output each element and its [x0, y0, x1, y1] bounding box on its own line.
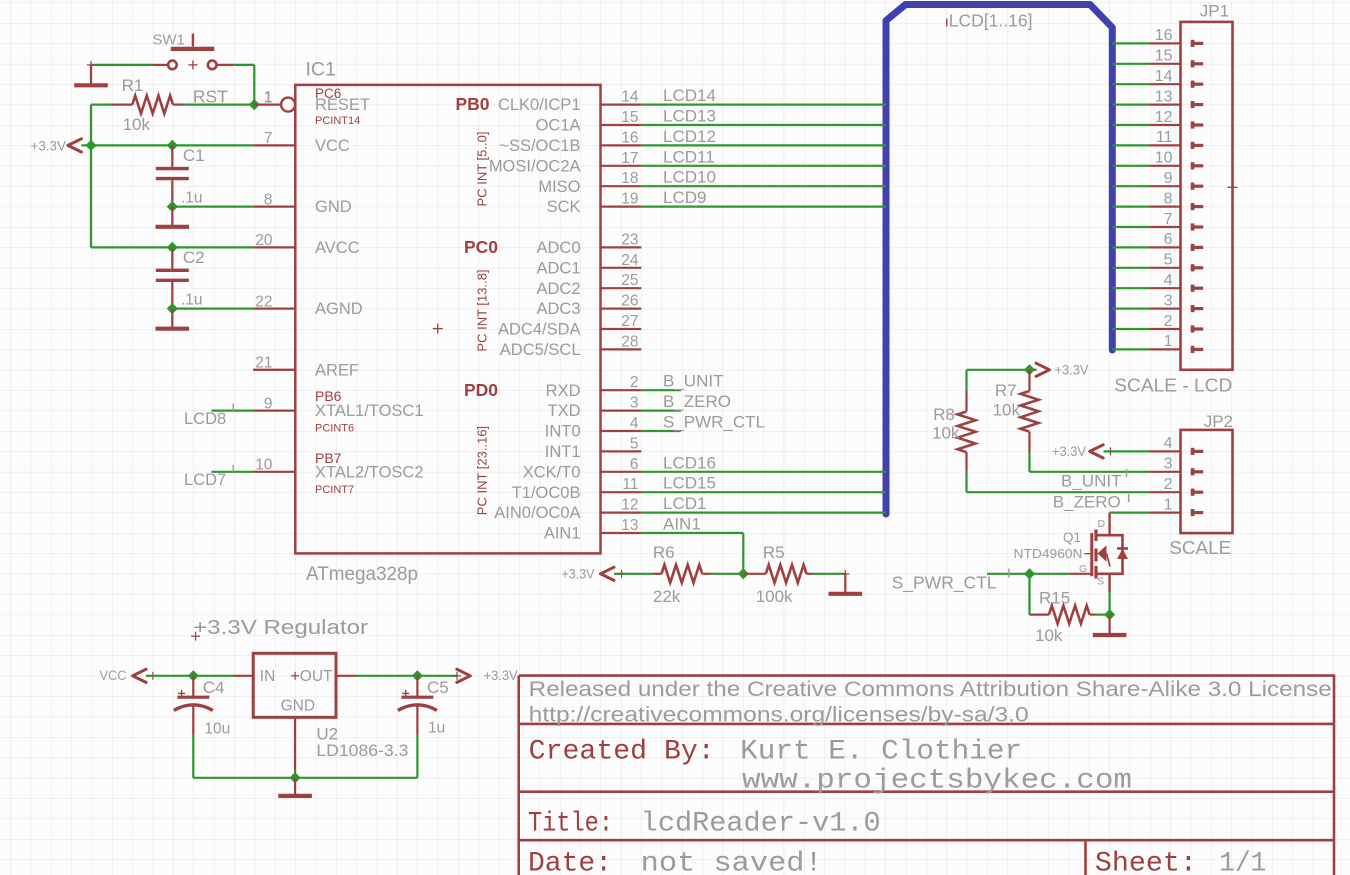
- wire R7-pin3: [1030, 452, 1151, 472]
- svg-text:R15: R15: [1039, 589, 1070, 608]
- svg-text:23: 23: [621, 231, 638, 248]
- wire C4-bottom: [192, 735, 194, 777]
- svg-text:PB7: PB7: [315, 450, 342, 466]
- wire VCC-C4: [146, 675, 233, 677]
- svg-text:NTD4960N: NTD4960N: [1014, 546, 1083, 561]
- svg-text:+3.3V Regulator: +3.3V Regulator: [193, 616, 368, 639]
- junction VCC-rail: [85, 140, 96, 151]
- wire AIN1: [641, 515, 743, 574]
- wire rail: [91, 105, 172, 248]
- svg-text:4: 4: [1164, 272, 1173, 289]
- svg-text:AVCC: AVCC: [315, 239, 360, 257]
- svg-text:S_PWR_CTL: S_PWR_CTL: [663, 413, 765, 432]
- svg-text:ADC0: ADC0: [536, 239, 580, 257]
- date sheet text: [528, 849, 1266, 875]
- svg-text:LCD13: LCD13: [663, 107, 716, 126]
- wire U2 GND lead: [294, 717, 296, 778]
- svg-text:SW1: SW1: [152, 32, 185, 49]
- pin 21 stub: [253, 369, 295, 371]
- title text: [528, 808, 881, 839]
- bus LCD[1..16]: [886, 5, 1112, 515]
- resistor R7: [993, 370, 1039, 452]
- svg-text:PC INT [13..8]: PC INT [13..8]: [475, 269, 490, 351]
- ground R5: [829, 574, 863, 594]
- svg-text:5: 5: [630, 435, 639, 452]
- svg-text:8: 8: [264, 191, 273, 208]
- svg-text:RXD: RXD: [546, 382, 581, 400]
- svg-text:ADC5/SCL: ADC5/SCL: [500, 341, 581, 359]
- svg-text:10k: 10k: [932, 424, 960, 443]
- svg-text:Created By:: Created By:: [529, 737, 715, 768]
- svg-text:B_ZERO: B_ZERO: [1053, 492, 1121, 511]
- svg-text:LCD11: LCD11: [663, 147, 715, 166]
- svg-text:6: 6: [1164, 231, 1173, 248]
- wire LCD10: [641, 168, 886, 187]
- svg-text:PCINT14: PCINT14: [315, 115, 360, 127]
- wire LCD8: [184, 404, 255, 429]
- supply +3.3V R6: [562, 566, 615, 581]
- title block frame: [519, 676, 1334, 875]
- wire S_PWR_CTL stub: [641, 413, 765, 432]
- svg-text:~SS/OC1B: ~SS/OC1B: [499, 137, 580, 155]
- wire LCD13: [641, 107, 886, 126]
- junction C1-top: [167, 140, 178, 151]
- svg-text:PCINT7: PCINT7: [315, 484, 354, 496]
- svg-text:100k: 100k: [756, 587, 793, 606]
- svg-text:3: 3: [1164, 292, 1173, 309]
- svg-text:ADC2: ADC2: [536, 280, 580, 298]
- svg-text:PC6: PC6: [315, 86, 341, 101]
- wire LCD12: [641, 127, 886, 146]
- created by text: [529, 737, 1132, 797]
- capacitor C5: [398, 676, 449, 737]
- svg-text:B_ZERO: B_ZERO: [663, 392, 731, 411]
- svg-text:24: 24: [621, 252, 639, 269]
- svg-text:10: 10: [255, 457, 273, 474]
- wire LCD16: [641, 453, 886, 472]
- wire LCD1: [641, 494, 886, 513]
- svg-text:OUT: OUT: [300, 668, 333, 685]
- svg-text:JP2: JP2: [1204, 412, 1233, 431]
- svg-text:15: 15: [621, 109, 638, 126]
- junction U2 gnd: [290, 772, 301, 783]
- svg-text:1: 1: [1164, 333, 1173, 350]
- supply VCC: [100, 668, 157, 683]
- svg-text:15: 15: [1155, 48, 1173, 65]
- svg-text:R5: R5: [763, 543, 785, 562]
- ground C1: [156, 207, 190, 227]
- resistor R6: [653, 543, 711, 606]
- IC1 port interrupt labels: [475, 132, 490, 516]
- ground SW1: [74, 65, 108, 85]
- svg-text:AIN1: AIN1: [663, 515, 701, 534]
- svg-text:28: 28: [621, 333, 638, 350]
- wire LCD11: [641, 147, 886, 166]
- svg-text:PC INT [5..0]: PC INT [5..0]: [475, 132, 490, 207]
- svg-text:+3.3V: +3.3V: [1052, 444, 1086, 459]
- wire R8-pin2 B_UNIT: [967, 469, 1151, 492]
- svg-text:XCK/T0: XCK/T0: [523, 463, 581, 481]
- svg-text:PC0: PC0: [464, 237, 498, 257]
- svg-text:MOSI/OC2A: MOSI/OC2A: [489, 157, 581, 175]
- wire OUT lead: [336, 675, 356, 677]
- svg-text:LCD1: LCD1: [663, 494, 706, 513]
- svg-text:INT0: INT0: [545, 423, 581, 441]
- svg-text:14: 14: [1155, 68, 1173, 85]
- svg-text:LCD10: LCD10: [663, 168, 716, 187]
- svg-text:PD0: PD0: [464, 380, 498, 400]
- svg-text:22: 22: [255, 293, 272, 310]
- wire RST: [91, 86, 254, 106]
- svg-text:+3.3V: +3.3V: [31, 139, 67, 154]
- svg-text:VCC: VCC: [100, 668, 127, 683]
- svg-text:LCD8: LCD8: [184, 410, 226, 428]
- svg-text:LCD12: LCD12: [663, 127, 716, 146]
- svg-text:IN: IN: [260, 668, 276, 685]
- svg-text:RST: RST: [193, 86, 228, 106]
- junction gate: [1024, 568, 1035, 579]
- svg-text:CLK0/ICP1: CLK0/ICP1: [498, 96, 581, 114]
- svg-text:LCD16: LCD16: [663, 453, 716, 472]
- svg-text:PCINT6: PCINT6: [315, 423, 354, 435]
- wires bus to JP1: [1112, 43, 1150, 349]
- svg-text:MISO: MISO: [538, 178, 580, 196]
- resistor R1: [112, 76, 184, 134]
- capacitor C1: [156, 145, 205, 206]
- wire regulator ground: [193, 777, 417, 779]
- svg-text:14: 14: [621, 89, 639, 106]
- svg-text:Kurt E. Clothier: Kurt E. Clothier: [740, 737, 1022, 768]
- connector JP2: [1150, 412, 1233, 533]
- svg-text:26: 26: [621, 293, 638, 310]
- svg-text:SCALE - LCD: SCALE - LCD: [1114, 375, 1232, 396]
- svg-text:4: 4: [630, 415, 639, 432]
- svg-text:D: D: [1098, 518, 1106, 530]
- svg-text:Q1: Q1: [1063, 530, 1081, 545]
- svg-text:1/1: 1/1: [1219, 849, 1266, 875]
- svg-text:1: 1: [1164, 496, 1173, 513]
- svg-text:.1u: .1u: [181, 292, 203, 309]
- wire R6-AIN1: [711, 573, 744, 575]
- svg-text:27: 27: [621, 313, 638, 330]
- svg-text:http://creativecommons.org/lic: http://creativecommons.org/licenses/by-s…: [529, 703, 1029, 727]
- resistor R5: [743, 543, 812, 606]
- svg-text:12: 12: [621, 497, 638, 514]
- svg-text:9: 9: [1164, 170, 1173, 187]
- svg-text:SCK: SCK: [547, 198, 581, 216]
- wire R7R8-top: [967, 369, 1030, 371]
- wire S_PWR_CTL gate: [892, 569, 1092, 594]
- wire pin4 +3.3V: [1104, 450, 1151, 452]
- svg-text:10k: 10k: [993, 401, 1021, 420]
- svg-text:16: 16: [621, 129, 638, 146]
- IC1 left pin leads: [253, 105, 295, 472]
- junction C4: [188, 670, 199, 681]
- svg-text:8: 8: [1164, 190, 1173, 207]
- svg-text:9: 9: [264, 395, 273, 412]
- svg-text:5: 5: [1164, 252, 1173, 269]
- svg-text:19: 19: [621, 191, 638, 208]
- svg-text:C2: C2: [183, 248, 205, 267]
- svg-text:Released under the Creative Co: Released under the Creative Commons Attr…: [529, 677, 1332, 701]
- junction C1-bot: [167, 201, 178, 212]
- wire LCD9: [641, 188, 886, 207]
- IC1 right pin numbers: [621, 89, 639, 534]
- supply +3.3V left: [31, 139, 82, 154]
- ground U2: [278, 778, 312, 796]
- svg-text:1u: 1u: [428, 720, 445, 737]
- svg-text:Title:: Title:: [528, 808, 613, 839]
- svg-text:AIN0/OC0A: AIN0/OC0A: [494, 504, 580, 522]
- svg-text:S_PWR_CTL: S_PWR_CTL: [892, 573, 997, 594]
- wire pin22: [172, 308, 254, 310]
- wire pin8: [172, 206, 254, 208]
- wire IN lead: [233, 675, 253, 677]
- svg-text:S: S: [1097, 576, 1104, 588]
- svg-text:2: 2: [630, 374, 639, 391]
- svg-text:GND: GND: [315, 198, 352, 216]
- svg-text:10u: 10u: [204, 721, 230, 738]
- svg-text:7: 7: [1164, 211, 1173, 228]
- svg-text:.1u: .1u: [181, 190, 203, 207]
- svg-text:www.projectsbykec.com: www.projectsbykec.com: [742, 766, 1132, 797]
- svg-text:TXD: TXD: [548, 402, 581, 420]
- svg-text:XTAL1/TOSC1: XTAL1/TOSC1: [315, 402, 424, 420]
- label +3.3V Regulator: [191, 616, 368, 641]
- IC1 left pin numbers: [255, 89, 273, 473]
- ground Q1: [1093, 615, 1127, 635]
- svg-text:ADC4/SDA: ADC4/SDA: [498, 321, 581, 339]
- wire B_UNIT stub: [641, 372, 723, 391]
- svg-text:20: 20: [255, 232, 273, 249]
- op-amp IC1 ATmega328p box: [295, 59, 600, 586]
- pin 1 RESET lead: [254, 89, 295, 112]
- svg-text:GND: GND: [281, 698, 315, 715]
- IC1 port labels: [456, 94, 499, 400]
- capacitor C4: [174, 676, 230, 738]
- svg-text:4: 4: [1164, 435, 1173, 452]
- svg-text:PC INT [23..16]: PC INT [23..16]: [475, 426, 490, 515]
- svg-text:OC1A: OC1A: [536, 117, 581, 135]
- svg-text:AGND: AGND: [315, 300, 363, 318]
- svg-text:11: 11: [622, 476, 638, 493]
- junction C5: [412, 670, 423, 681]
- regulator U2 LD1086-3.3: [253, 653, 408, 760]
- junction source: [1104, 609, 1115, 620]
- svg-text:7: 7: [264, 130, 273, 147]
- wire OUT-C5: [356, 675, 457, 677]
- svg-text:3: 3: [630, 395, 639, 412]
- wire R8-top: [965, 370, 967, 391]
- svg-text:XTAL2/TOSC2: XTAL2/TOSC2: [315, 463, 424, 481]
- wire R5-gnd: [813, 570, 850, 578]
- license text: [529, 677, 1332, 727]
- svg-text:+3.3V: +3.3V: [1055, 362, 1089, 377]
- svg-text:LCD15: LCD15: [663, 474, 716, 493]
- svg-text:1: 1: [264, 89, 273, 106]
- wire VCC: [81, 144, 254, 146]
- svg-text:B_UNIT: B_UNIT: [1061, 472, 1121, 491]
- svg-text:SCALE: SCALE: [1169, 537, 1231, 558]
- IC1 left pin names: [315, 86, 424, 496]
- wire R15-junction: [1095, 613, 1110, 615]
- svg-text:+3.3V: +3.3V: [484, 668, 518, 683]
- IC1 right pin leads: [601, 105, 642, 533]
- svg-text:Sheet:: Sheet:: [1095, 849, 1197, 875]
- wire SW1-right: [233, 65, 254, 105]
- resistor R8: [932, 391, 976, 471]
- svg-text:25: 25: [621, 272, 638, 289]
- svg-text:10k: 10k: [1035, 626, 1063, 645]
- svg-text:C1: C1: [183, 146, 205, 165]
- connector JP1: [1150, 2, 1238, 370]
- svg-text:ADC1: ADC1: [536, 259, 580, 277]
- wire C5-bottom: [416, 735, 418, 777]
- svg-text:ADC3: ADC3: [536, 300, 580, 318]
- wire +3.3V-R6: [614, 570, 653, 578]
- wire B_ZERO stub: [641, 392, 731, 411]
- svg-text:6: 6: [630, 456, 639, 473]
- wire SW1-left: [87, 61, 153, 69]
- svg-text:Date:: Date:: [528, 849, 612, 875]
- switch SW1: [152, 32, 233, 70]
- label SCALE: [1169, 537, 1231, 558]
- wire gate-R15: [1030, 574, 1049, 615]
- svg-text:LCD[1..16]: LCD[1..16]: [949, 11, 1033, 31]
- wire Q1 source: [1108, 592, 1110, 615]
- transistor Q1 NTD4960N: [1014, 513, 1129, 592]
- svg-text:AREF: AREF: [315, 361, 359, 379]
- svg-text:R1: R1: [122, 76, 144, 95]
- junction R7-top: [1024, 364, 1035, 375]
- svg-text:11: 11: [1156, 129, 1173, 146]
- svg-text:LCD7: LCD7: [184, 471, 226, 489]
- IC1 right pin names: [489, 96, 581, 542]
- svg-text:+3.3V: +3.3V: [562, 566, 595, 581]
- svg-text:12: 12: [1155, 109, 1173, 126]
- svg-text:C5: C5: [427, 678, 449, 697]
- svg-text:T1/OC0B: T1/OC0B: [512, 484, 581, 502]
- svg-text:AIN1: AIN1: [544, 525, 581, 543]
- wire LCD14: [641, 86, 886, 105]
- supply +3.3V R7: [1030, 362, 1089, 377]
- svg-text:2: 2: [1164, 476, 1173, 493]
- svg-text:16: 16: [1155, 27, 1173, 44]
- svg-text:10k: 10k: [123, 115, 151, 134]
- supply +3.3V JP2: [1052, 444, 1115, 459]
- svg-text:R8: R8: [933, 405, 955, 424]
- capacitor C2: [156, 247, 205, 308]
- svg-text:lcdReader-v1.0: lcdReader-v1.0: [641, 808, 881, 839]
- wire LCD7: [184, 465, 255, 490]
- svg-text:LCD9: LCD9: [663, 188, 706, 207]
- svg-text:LCD14: LCD14: [663, 86, 716, 105]
- svg-text:13: 13: [621, 517, 638, 534]
- wire B_ZERO Q1: [1053, 492, 1150, 512]
- svg-text:18: 18: [621, 170, 638, 187]
- svg-text:3: 3: [1164, 456, 1173, 473]
- svg-text:2: 2: [1164, 313, 1173, 330]
- supply +3.3V out: [453, 668, 518, 683]
- svg-text:10: 10: [1155, 150, 1173, 167]
- svg-text:VCC: VCC: [315, 137, 350, 155]
- resistor R15: [1035, 589, 1095, 645]
- junction C2-bot: [167, 303, 178, 314]
- svg-text:13: 13: [1155, 88, 1173, 105]
- svg-text:22k: 22k: [653, 587, 681, 606]
- junction RST: [249, 99, 260, 110]
- svg-text:JP1: JP1: [1200, 2, 1229, 21]
- svg-text:IC1: IC1: [306, 59, 336, 81]
- svg-text:not saved!: not saved!: [641, 849, 823, 875]
- svg-text:LD1086-3.3: LD1086-3.3: [316, 741, 408, 760]
- svg-text:17: 17: [621, 150, 638, 167]
- junction AIN1: [738, 568, 749, 579]
- wire pin20: [172, 246, 254, 248]
- label SCALE - LCD: [1114, 375, 1232, 396]
- svg-text:R7: R7: [995, 381, 1017, 400]
- svg-text:B_UNIT: B_UNIT: [663, 372, 723, 391]
- junction C2-top: [167, 242, 178, 253]
- svg-text:ATmega328p: ATmega328p: [306, 564, 418, 585]
- wire LCD15: [641, 474, 886, 493]
- svg-text:PB6: PB6: [315, 388, 342, 404]
- svg-text:INT1: INT1: [545, 443, 581, 461]
- svg-text:PB0: PB0: [456, 94, 490, 114]
- ground C2: [156, 309, 190, 329]
- svg-text:C4: C4: [203, 678, 225, 697]
- svg-text:R6: R6: [653, 543, 675, 562]
